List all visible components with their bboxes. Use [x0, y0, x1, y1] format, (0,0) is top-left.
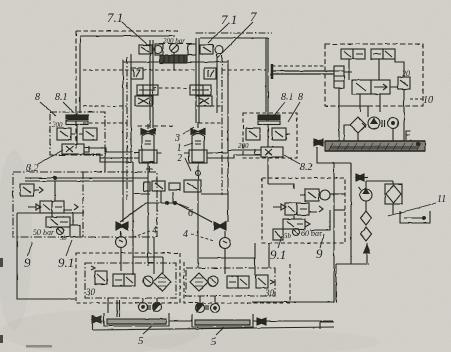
dashed lid — [137, 125, 173, 127]
wire tankR to boundary — [253, 320, 333, 322]
valve 9R-reducing — [283, 219, 310, 229]
valve 7.1-C — [137, 85, 158, 95]
wires tanks feed — [108, 298, 120, 317]
svg-text:8.1: 8.1 — [55, 92, 68, 103]
svg-text:8.2: 8.2 — [300, 162, 313, 173]
cylinder R — [184, 122, 212, 268]
cylinder L — [134, 124, 162, 266]
wire 9L left boundary — [17, 213, 83, 299]
svg-text:5b: 5b — [60, 235, 67, 242]
svg-text:7.1: 7.1 — [107, 10, 123, 25]
directional valve 10 — [352, 80, 390, 94]
filter 11 — [385, 184, 402, 204]
relief 9R — [273, 229, 283, 240]
shutoff tank5L — [92, 316, 101, 323]
valve 7-C — [190, 85, 211, 95]
valve 9L-pilot — [20, 184, 43, 196]
box 9L dash-dot — [13, 172, 157, 237]
wires pumps up — [143, 296, 215, 304]
relief 9L — [70, 225, 80, 237]
filter 30R — [190, 273, 208, 291]
brake chamber 8.1 left — [66, 113, 88, 145]
valve 8R-a — [246, 128, 260, 140]
gauge 30L — [143, 276, 153, 286]
wires 9L bus — [25, 178, 148, 181]
wire bus to block 10 — [272, 71, 334, 74]
anchor mark — [146, 166, 153, 172]
box 30L dash-dot — [85, 263, 176, 298]
coupling 5L — [148, 305, 150, 310]
wire V left — [120, 203, 146, 222]
wire 9L verticals — [52, 181, 73, 225]
edge smudges — [0, 258, 52, 348]
relief valve 20 — [398, 77, 410, 89]
wire left col down — [104, 152, 106, 172]
gauge 4L — [116, 231, 127, 248]
pilot lines dashed — [83, 66, 325, 123]
wire 8L to cylinder — [77, 148, 133, 162]
junction T-bar — [271, 64, 274, 79]
svg-text:8: 8 — [298, 92, 303, 103]
centerline 7.1 dash-dot — [126, 57, 128, 200]
svg-text:8: 8 — [35, 92, 40, 103]
bottom bus — [93, 321, 334, 330]
gauge 50bar — [57, 228, 64, 235]
box 30R dash-dot — [186, 268, 275, 296]
svg-text:2: 2 — [177, 153, 182, 164]
tank 11 — [400, 211, 430, 223]
block 10 dashed box — [325, 44, 423, 106]
enclosure R dashed — [184, 262, 290, 303]
svg-text:4: 4 — [152, 225, 157, 236]
leaders 9 9.1 — [28, 240, 72, 256]
leaders 8.1 8 right — [272, 102, 300, 122]
svg-text:9.1: 9.1 — [58, 255, 74, 270]
valve 8.2 left — [62, 144, 89, 154]
motor 5R — [211, 304, 220, 313]
leaders 8 8.1 — [40, 102, 74, 116]
wire 9R pilot out — [330, 193, 345, 195]
gauge 60bar — [293, 229, 300, 236]
leader 11 — [388, 203, 436, 216]
centerline 9L dash-dot — [82, 172, 84, 237]
breather F — [406, 131, 411, 140]
shutoff valve tank10 — [314, 139, 323, 146]
valve 7.1-D — [135, 96, 152, 106]
valve 10-B — [371, 49, 395, 59]
svg-text:5b: 5b — [284, 232, 292, 240]
wire gauge4R down — [224, 249, 226, 274]
svg-text:30: 30 — [85, 287, 96, 297]
leader 7 — [217, 22, 253, 58]
wire tank10 down — [317, 147, 351, 302]
valve 9L-reducing — [46, 217, 70, 227]
leader 5 left — [143, 326, 152, 334]
leader 5 right — [216, 327, 224, 335]
filter 10 — [334, 66, 344, 88]
bracket L — [155, 44, 163, 55]
svg-text:6: 6 — [188, 208, 193, 219]
centerline 7 dash-dot — [221, 55, 223, 195]
svg-text:20: 20 — [402, 69, 410, 78]
enclosure L dashed — [76, 253, 180, 303]
wire filter tank11 — [366, 201, 393, 214]
gauge 200bar — [170, 44, 179, 53]
wire 9R internals — [268, 158, 330, 230]
block 7.1 solid frame — [80, 36, 175, 113]
block 7 solid frame — [200, 38, 268, 112]
svg-text:200: 200 — [238, 142, 249, 150]
coupling L — [116, 222, 128, 230]
wire block7.1 inner verticals — [123, 40, 153, 222]
valve 7-B — [204, 68, 216, 79]
wire block7 inner verticals — [196, 38, 228, 222]
leader 4 left — [131, 231, 150, 238]
tank 10 hatched — [325, 141, 425, 151]
wire manifold side links — [133, 193, 228, 195]
wires 9R cols down — [255, 243, 269, 275]
shutoff valve cyl L — [141, 129, 155, 135]
coupling R — [214, 222, 226, 230]
wires pump tank — [344, 125, 393, 141]
svg-text:50 bar: 50 bar — [33, 228, 55, 237]
svg-text:4: 4 — [183, 229, 188, 240]
svg-text:9.1: 9.1 — [270, 247, 286, 262]
leader 7.1 left — [122, 22, 148, 45]
valve 7.1-A — [139, 45, 162, 54]
scan blotches — [0, 150, 380, 352]
box 8R dashed — [243, 113, 297, 158]
shutoff mid bottom — [257, 318, 266, 325]
coupling 5R — [206, 305, 208, 310]
check valve 11a — [361, 211, 372, 225]
wire gauge4L down — [120, 248, 122, 271]
wires inside block 10 — [339, 59, 404, 141]
valve 10-A — [341, 49, 365, 59]
leader 8.2 right — [284, 155, 300, 164]
gauge 30R — [208, 276, 218, 286]
box 8L dash-dot — [50, 112, 105, 155]
block 7.1 dashed outline — [76, 31, 178, 150]
bracket R — [188, 44, 196, 55]
tank 5 left — [104, 313, 169, 326]
valve 7.1-B — [131, 68, 143, 79]
shutoff valve 11 — [356, 174, 364, 181]
valve 7-A — [200, 45, 223, 54]
valve 8L-b — [79, 128, 97, 140]
svg-text:200 bar: 200 bar — [163, 37, 185, 45]
motor 10 — [382, 118, 399, 129]
valve 8.2 right — [255, 147, 283, 157]
shutoff valve cyl R — [191, 129, 205, 135]
valve 30L relief — [91, 266, 107, 284]
box 9R dashed — [262, 178, 345, 243]
valve 9R-main — [273, 203, 323, 215]
suction arrow — [366, 243, 368, 263]
svg-text:10: 10 — [423, 95, 433, 106]
valve 9L-main — [28, 201, 78, 213]
leader 10 — [410, 98, 423, 100]
underline 200bar — [159, 43, 192, 45]
wire 8R to cylinder — [212, 150, 261, 158]
manifold valves center — [144, 180, 201, 192]
leaders 3 1 2 — [183, 127, 194, 171]
pump 11 — [358, 187, 372, 201]
wire center cols down — [133, 162, 154, 275]
valve 8R-b — [272, 128, 290, 140]
wire filter30L feed — [133, 257, 255, 273]
wire blocks link — [123, 61, 228, 63]
valve 8L-a — [57, 128, 75, 140]
brake chamber 8.1 right — [258, 112, 280, 147]
valve 30R dir — [227, 276, 249, 288]
valve 30R relief — [256, 275, 274, 288]
svg-text:8.1: 8.1 — [281, 92, 294, 103]
svg-text:9: 9 — [316, 246, 323, 261]
leader 7.1 right — [208, 24, 228, 43]
wire V right — [176, 203, 212, 222]
valve 9R-pilot — [300, 189, 330, 201]
leader 6 — [179, 204, 189, 208]
check valve 11b — [361, 227, 372, 241]
svg-text:7: 7 — [250, 9, 257, 24]
valve 30L dir — [113, 274, 135, 286]
block 7 dash-dot outline — [196, 32, 272, 34]
motor 5L — [153, 302, 162, 311]
svg-text:7.1: 7.1 — [221, 12, 237, 27]
valve 7-D — [196, 96, 212, 106]
wire pump11 top — [366, 181, 393, 189]
right boundary — [336, 163, 369, 302]
svg-text:30: 30 — [264, 288, 275, 298]
port circle cyl R — [196, 171, 201, 176]
svg-text:11: 11 — [437, 194, 446, 205]
gauge 4R — [220, 231, 231, 249]
wire 9R right link — [334, 209, 345, 211]
leaders 9.1 9 right — [278, 234, 324, 248]
throttle valve center — [160, 55, 187, 63]
leader 4 right — [191, 234, 214, 241]
wire manifold bus — [146, 191, 176, 203]
svg-text:200: 200 — [52, 121, 63, 129]
pump 5R — [196, 303, 205, 312]
filter 30L — [153, 273, 171, 291]
pump 10 — [350, 117, 380, 133]
leader 8.2 left — [38, 150, 63, 164]
tank 5 right — [192, 314, 253, 327]
pump 5L — [139, 303, 148, 312]
